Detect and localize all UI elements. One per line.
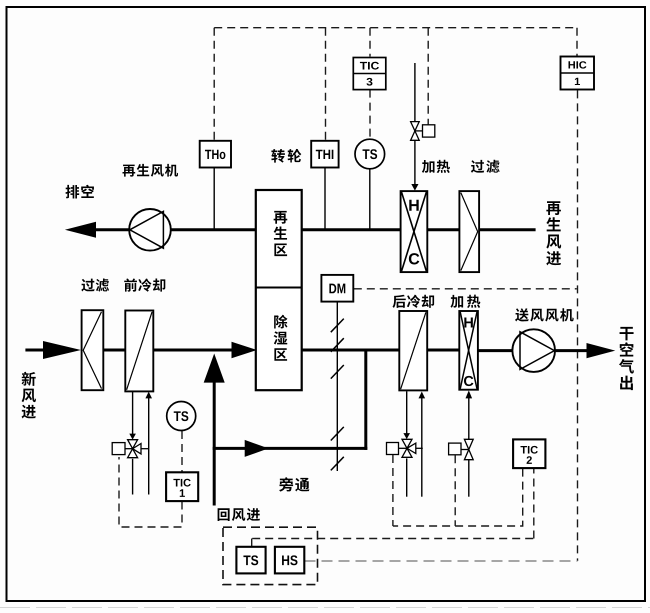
label aftercooler 后冷却 bbox=[392, 295, 434, 308]
label heating 加热 top bbox=[422, 160, 450, 173]
label regeneration zone bbox=[274, 211, 288, 256]
valve regen heating with actuator bbox=[411, 122, 435, 141]
dashed TS input to TIC2 bbox=[533, 469, 535, 539]
pipe reheater bbox=[468, 398, 470, 440]
fresh air arrow bbox=[43, 341, 81, 359]
bypass riser to process duct bbox=[364, 349, 367, 450]
controller HIC 1 bbox=[561, 57, 595, 90]
dashed drop to HIC bbox=[576, 28, 578, 59]
dashed valve actuator drop A bbox=[392, 455, 394, 526]
label bypass 旁通 bbox=[279, 477, 309, 491]
label supply fan 送风风机 bbox=[515, 308, 574, 321]
controller TIC 2 bbox=[513, 439, 545, 468]
arrow into wheel bbox=[232, 342, 258, 359]
return air duct vertical bbox=[213, 381, 216, 506]
dashed sensor enclosure box TS HS bbox=[223, 527, 318, 584]
sensor TS circle top bbox=[355, 139, 385, 169]
rotary wheel body bbox=[256, 190, 302, 390]
label return air in 回风进 bbox=[218, 508, 260, 521]
exhaust arrow bbox=[65, 222, 96, 238]
scan artifact line bottom bbox=[0, 607, 650, 609]
instrument THo bbox=[200, 141, 231, 168]
regen duct line bbox=[88, 228, 129, 231]
dashed TIC1 to valve loop bbox=[119, 457, 182, 527]
regen filter bbox=[459, 191, 479, 272]
pipe precooler return bbox=[148, 398, 150, 495]
filter fresh air bbox=[82, 310, 104, 390]
label precooler 前冷却 bbox=[124, 278, 165, 291]
dashed HIC output line down bbox=[577, 90, 579, 561]
wire regen heating supply bbox=[414, 63, 416, 122]
damper blade marks bbox=[331, 319, 344, 471]
pipe aftercooler supply bbox=[406, 391, 408, 433]
dashed drop to TIC3 bbox=[369, 28, 371, 57]
reheater coil H C bbox=[459, 311, 478, 390]
valve precooler 3-way with actuator bbox=[112, 440, 148, 458]
valve aftercooler 3-way with actuator bbox=[387, 439, 423, 457]
regen fan bbox=[129, 209, 171, 251]
dashed valve actuator drop B bbox=[454, 455, 456, 526]
precooler coil bbox=[125, 311, 153, 392]
pipe aftercooler return bbox=[421, 398, 423, 497]
pipe precooler supply bbox=[132, 391, 134, 434]
dashed drop to THo bbox=[213, 28, 215, 140]
damper motor DM bbox=[321, 275, 353, 302]
bypass duct line bbox=[213, 447, 246, 450]
dashed TIC3 to TS bbox=[369, 90, 371, 139]
label wheel 转轮 bbox=[271, 149, 301, 163]
label dehumidification zone bbox=[274, 315, 288, 361]
return air arrow up bbox=[204, 354, 225, 383]
sensor TS return air bbox=[236, 547, 265, 574]
label filter 过滤 right bbox=[471, 160, 500, 173]
valve reheater 2-way with actuator bbox=[449, 439, 474, 459]
dashed HS to HIC gray line bbox=[305, 560, 578, 562]
dry air out arrow bbox=[587, 343, 616, 358]
label regen fan 再生风机 bbox=[123, 164, 179, 177]
label regen air in 再生风进 bbox=[546, 201, 561, 265]
label exhaust 排空 bbox=[66, 185, 94, 199]
sensor HS return air bbox=[275, 547, 304, 574]
dashed TIC2 output to valves bbox=[393, 469, 523, 526]
label dry air out 干空气出 bbox=[619, 327, 634, 390]
dashed drop to THI bbox=[325, 28, 327, 140]
supply fan bbox=[512, 329, 555, 372]
wire THo stem bbox=[213, 168, 215, 230]
process duct line bbox=[25, 349, 48, 352]
label fresh air in 新风进 bbox=[22, 372, 36, 419]
bypass arrow bbox=[245, 440, 269, 457]
arrow into regen heater bbox=[411, 184, 418, 191]
dashed drop to regen valve actuator bbox=[427, 28, 429, 125]
wheel divider bbox=[256, 287, 302, 289]
controller TIC 3 bbox=[353, 58, 386, 90]
dashed DM to HIC line bbox=[354, 288, 577, 290]
dashed TS line horizontal bbox=[252, 538, 534, 540]
wire TS stem bbox=[369, 169, 371, 230]
dashed TS to TIC1 bbox=[181, 431, 183, 472]
regen heater coil H C bbox=[401, 191, 428, 272]
label filter 过滤 left bbox=[81, 279, 109, 292]
dashed signal bus top bbox=[214, 27, 577, 29]
wire DM damper linkage bbox=[336, 302, 338, 471]
wire THI stem bbox=[324, 168, 326, 230]
instrument THI bbox=[311, 141, 338, 168]
wire TS box stub bbox=[251, 539, 253, 547]
label heating 加热 right bbox=[450, 295, 480, 308]
aftercooler coil bbox=[399, 311, 427, 390]
sensor TS circle fresh air bbox=[167, 402, 196, 431]
controller TIC 1 bbox=[166, 472, 198, 501]
